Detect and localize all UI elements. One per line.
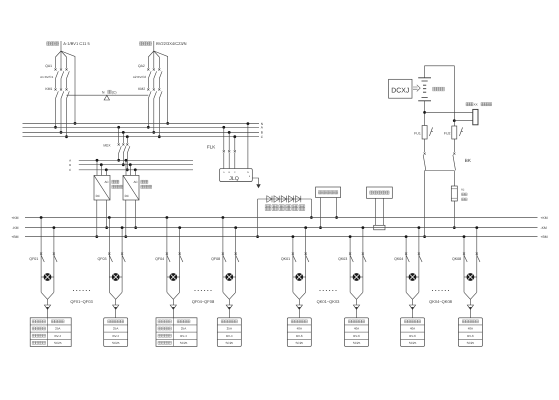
svg-text:25A: 25A (113, 327, 118, 331)
converter sub-bus 3 (79, 169, 193, 171)
feeder QF08 load table (217, 318, 241, 347)
feeder QF01 wires from bus (40, 216, 43, 219)
svg-text:+KM: +KM (11, 216, 18, 220)
feeder QF03 converge (109, 292, 122, 299)
DC bus +BM (25, 236, 538, 238)
svg-text:BV-6: BV-6 (296, 334, 303, 338)
feeder switch QF03 poles (108, 253, 110, 255)
feeder QK03 outgoing arrow (356, 299, 358, 305)
svg-text:25A: 25A (181, 327, 186, 331)
svg-text:40A: 40A (297, 327, 302, 331)
svg-text:25A: 25A (55, 327, 60, 331)
feeder QK01 wires from bus (292, 235, 295, 238)
svg-text:A: A (69, 159, 71, 163)
incomer B neutral junction (166, 122, 169, 125)
switch FLK pole 1 (222, 126, 225, 129)
incomer A phase wires to bus (55, 99, 57, 128)
svg-text:SC25: SC25 (54, 341, 62, 345)
feeder group ellipsis QK04~QK08 (432, 290, 433, 291)
resistor R2 leg (453, 171, 455, 187)
feeder QF04 converge (167, 292, 180, 299)
svg-text:BK: BK (465, 158, 472, 163)
FLK neutral wire (247, 122, 250, 125)
svg-text:40A: 40A (410, 327, 415, 331)
FLQ discharge wire and arrow (252, 178, 258, 184)
svg-text:SC25: SC25 (112, 341, 120, 345)
breaker MDX pole 3 (126, 135, 129, 138)
feeder QK04 outgoing arrow (412, 299, 414, 305)
feeder QK08 wires from bus (463, 235, 466, 238)
svg-text:QK04~QK08: QK04~QK08 (429, 299, 453, 304)
converter sub-bus 2 (79, 164, 193, 166)
shunt on -KM bus (374, 225, 385, 230)
feeder QK04 wires from bus (405, 235, 408, 238)
contactor KM1 poles (54, 88, 56, 90)
svg-text:A1 BV/C1: A1 BV/C1 (40, 75, 54, 79)
feeder QF08 indicator lamp (223, 276, 236, 278)
feeder switch QK03 poles (349, 253, 351, 255)
feeder QK01 converge (293, 292, 306, 299)
incomer A neutral junction (74, 122, 77, 125)
svg-text:KM1: KM1 (45, 87, 52, 91)
svg-text:A2 BV/C2: A2 BV/C2 (133, 75, 147, 79)
svg-text:BV-4: BV-4 (180, 334, 187, 338)
feeder group ellipsis QF01~QF03 (73, 290, 74, 291)
svg-text:FU1: FU1 (414, 131, 421, 135)
diode D4 (288, 196, 293, 203)
svg-text:+BM: +BM (541, 235, 548, 239)
svg-text:QA1: QA1 (45, 64, 52, 68)
svg-text:FU2: FU2 (444, 131, 451, 135)
svg-text:-KM: -KM (12, 226, 18, 230)
svg-text:BV-6: BV-6 (353, 334, 360, 338)
battery GB (418, 78, 431, 101)
AC bus C (23, 136, 260, 138)
tie line between incomers (67, 94, 149, 96)
DC monitor DCXJ box (389, 79, 412, 98)
diode D2 (274, 196, 279, 203)
feeder QK08 load table (458, 318, 482, 347)
svg-text:BV-6: BV-6 (467, 334, 474, 338)
svg-text:SC25: SC25 (353, 341, 361, 345)
terminal strip label (466, 103, 473, 106)
switch FLK pole 2 (228, 131, 231, 134)
wire FU1 to switch (424, 139, 426, 152)
feeder switch QK04 poles (405, 253, 407, 255)
svg-text:QK08: QK08 (452, 257, 461, 261)
svg-text:BV-4: BV-4 (112, 334, 119, 338)
svg-text:A-1/BV1 C11 5: A-1/BV1 C11 5 (63, 41, 90, 46)
feeder QF03 wires from bus (108, 216, 111, 219)
svg-text:BV22/3X4/C23/N: BV22/3X4/C23/N (156, 41, 187, 46)
feeder QF01 indicator lamp (41, 276, 54, 278)
wire FU2 to switch (453, 139, 455, 152)
breaker MDX pole 2 (122, 131, 125, 134)
svg-text:QK04: QK04 (394, 257, 403, 261)
breaker QA1 poles (54, 68, 56, 70)
feeder group ellipsis QK01~QK03 (319, 290, 320, 291)
fuse FU1 (422, 126, 427, 140)
battery top wire (425, 66, 455, 121)
svg-text:40A: 40A (354, 327, 359, 331)
AC bus A (23, 126, 260, 128)
incomer A source label (47, 42, 59, 46)
feeder switch QK08 poles (463, 253, 465, 255)
feeder QK08 converge (464, 292, 477, 299)
svg-text:DCXJ: DCXJ (391, 87, 409, 94)
feeder QK03 converge (350, 292, 363, 299)
terminal strip (473, 109, 478, 124)
incomer B drop wire (153, 41, 155, 51)
resistor R2 (451, 186, 457, 201)
feeder QF03 load table (104, 318, 128, 347)
svg-text:MDX: MDX (103, 143, 111, 147)
incomer B fanout (148, 51, 167, 123)
svg-text:SC25: SC25 (180, 341, 188, 345)
svg-text:XX: XX (474, 102, 478, 106)
svg-text:+BM: +BM (11, 235, 18, 239)
tie triangle symbol (104, 95, 109, 100)
svg-text:(C): (C) (112, 91, 117, 95)
incomer B source label (140, 42, 152, 46)
feeder QK04 indicator lamp (406, 276, 419, 278)
svg-text:FLK: FLK (207, 144, 215, 149)
resistor to bus wire (453, 201, 455, 228)
svg-text:SC25: SC25 (409, 341, 417, 345)
feeder switch QF01 poles (40, 253, 42, 255)
svg-text:25A: 25A (227, 327, 232, 331)
feeder QF04 indicator lamp (167, 276, 180, 278)
rectifier module U1 side label (112, 180, 119, 183)
monitor box A (316, 187, 341, 198)
switch BK poles (424, 153, 426, 155)
contactor KM2 poles (147, 88, 149, 90)
svg-text:QF04: QF04 (155, 257, 164, 261)
svg-text:QK01: QK01 (281, 257, 290, 261)
svg-text:QK03: QK03 (338, 257, 347, 261)
svg-text:KM2: KM2 (138, 87, 145, 91)
box A wires (320, 198, 322, 228)
feeder QF01 outgoing arrow (47, 299, 49, 305)
battery positive leg to bus (424, 171, 426, 237)
feeder QK03 indicator lamp (350, 276, 363, 278)
svg-text:QF03: QF03 (98, 257, 107, 261)
diode D5 (296, 196, 301, 203)
feeder switch QF04 poles (166, 253, 168, 255)
svg-text:SC25: SC25 (467, 341, 475, 345)
svg-text:QF08: QF08 (211, 257, 220, 261)
feeder QF01 load table (30, 318, 71, 347)
svg-text:JLQ: JLQ (229, 176, 239, 182)
AC bus N (23, 123, 260, 125)
svg-text:DC: DC (125, 194, 130, 198)
feeder QK04 converge (406, 292, 419, 299)
feeder QK04 load table (401, 318, 425, 347)
device FLQ box (220, 169, 253, 182)
svg-text:B: B (69, 163, 71, 167)
svg-text:AC: AC (133, 180, 138, 184)
rectifier module U1 output wires (96, 200, 98, 237)
silicon chain label (265, 205, 305, 211)
battery bottom wire (424, 101, 426, 126)
svg-text:-KM: -KM (541, 226, 547, 230)
feeder QF08 outgoing arrow (228, 299, 230, 305)
wires to terminal strip (425, 111, 473, 113)
feeder group ellipsis QF04~QF08 (194, 290, 195, 291)
rectifier module U2 output wires (125, 200, 127, 237)
feeder QF08 converge (223, 292, 236, 299)
rectifier module U2 box (123, 175, 139, 200)
feeder QF08 wires from bus (222, 216, 225, 219)
svg-text:BV-4: BV-4 (54, 334, 61, 338)
feeder QK03 load table (345, 318, 369, 347)
svg-text:SC25: SC25 (226, 341, 234, 345)
svg-text:SC25: SC25 (296, 341, 304, 345)
feeder QK01 indicator lamp (293, 276, 306, 278)
feeder switch QK01 poles (292, 253, 294, 255)
feeder QF04 outgoing arrow (172, 299, 174, 305)
svg-text:QF01~QF03: QF01~QF03 (70, 299, 93, 304)
svg-text:QA2: QA2 (138, 64, 145, 68)
diode D3 (281, 196, 286, 203)
feeder QF04 wires from bus (166, 216, 169, 219)
diode D1 (267, 196, 272, 203)
breaker MDX pole 1 (117, 126, 120, 129)
svg-text:AC: AC (104, 180, 109, 184)
rectifier module U1 input wires (96, 159, 99, 162)
svg-text:40A: 40A (468, 327, 473, 331)
incomer A drop wire (60, 41, 62, 51)
rectifier module U2 input wires (125, 159, 128, 162)
svg-text:QF01: QF01 (29, 257, 38, 261)
svg-text:BV-6: BV-6 (409, 334, 416, 338)
switch BK bottom tie (425, 170, 455, 172)
svg-text:+KM: +KM (541, 216, 548, 220)
feeder QK03 wires from bus (349, 235, 352, 238)
feeder QF04 load table (156, 318, 197, 347)
svg-text:DC: DC (96, 194, 101, 198)
feeder QF03 indicator lamp (109, 276, 122, 278)
feeder QK08 indicator lamp (464, 276, 477, 278)
rectifier module U1 box (94, 175, 110, 200)
fuse FU2 (453, 121, 455, 126)
svg-text:BV-4: BV-4 (226, 334, 233, 338)
incomer B phase wires to bus (147, 99, 149, 128)
DC bus +KM (25, 217, 538, 219)
feeder QK08 outgoing arrow (469, 299, 471, 305)
feeder switch QF08 poles (222, 253, 224, 255)
DC bus -KM (25, 227, 538, 229)
silicon diode chain wire (258, 199, 312, 237)
battery label (433, 87, 445, 91)
incomer A fanout (56, 51, 76, 123)
svg-text:R2: R2 (461, 189, 465, 192)
svg-text:QK01~QK03: QK01~QK03 (317, 299, 341, 304)
feeder QF03 outgoing arrow (115, 299, 117, 305)
DCXJ arrow (413, 85, 420, 92)
rectifier module U2 side label (141, 180, 148, 183)
AC bus B (23, 131, 260, 133)
feeder QK01 load table (287, 318, 311, 347)
switch FLK pole 3 (233, 135, 236, 138)
feeder QK01 outgoing arrow (298, 299, 300, 305)
feeder QF01 converge (41, 292, 54, 299)
breaker QA2 poles (147, 68, 149, 70)
converter sub-bus 1 (79, 159, 193, 161)
box B wires (374, 198, 376, 225)
meter box B (367, 187, 393, 198)
svg-text:QF04~QF08: QF04~QF08 (192, 299, 215, 304)
